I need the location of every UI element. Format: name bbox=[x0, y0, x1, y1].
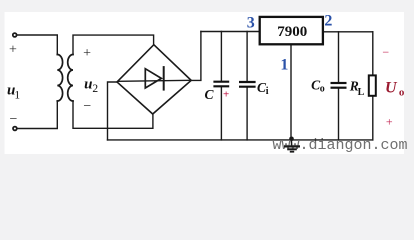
svg-text:−: − bbox=[382, 45, 389, 59]
svg-text:u: u bbox=[84, 76, 92, 92]
page background bbox=[0, 0, 414, 157]
svg-text:L: L bbox=[358, 87, 365, 98]
svg-text:+: + bbox=[386, 114, 393, 128]
wire secondary bottom to bridge bottom bbox=[73, 101, 153, 128]
svg-text:o: o bbox=[320, 84, 325, 95]
svg-text:C: C bbox=[204, 87, 214, 102]
wire pin1 down bbox=[290, 44, 292, 139]
svg-text:i: i bbox=[266, 86, 269, 97]
diode D cathode bar bbox=[163, 66, 165, 91]
wire bridge left vertex to ground rail bbox=[108, 82, 118, 140]
svg-text:2: 2 bbox=[324, 12, 332, 29]
ground symbol bbox=[284, 140, 300, 152]
wire C branch bbox=[220, 32, 222, 82]
svg-text:+: + bbox=[223, 88, 229, 100]
svg-text:U: U bbox=[385, 80, 398, 97]
wire Co branch bbox=[338, 32, 340, 83]
wire DC+ rail to 7900 pin3 bbox=[201, 31, 260, 33]
svg-text:+: + bbox=[9, 43, 17, 58]
svg-text:1: 1 bbox=[14, 89, 20, 101]
terminal bottom-left bbox=[13, 127, 17, 131]
svg-text:−: − bbox=[9, 112, 17, 127]
transformer secondary winding T1b bbox=[68, 55, 73, 102]
bridge rectifier diamond bbox=[117, 45, 191, 114]
transformer primary winding T1a bbox=[57, 55, 62, 102]
capacitor Ci plates bbox=[239, 82, 256, 87]
terminal top-left bbox=[13, 33, 17, 37]
svg-text:2: 2 bbox=[92, 83, 98, 95]
diode D wire inside bridge bbox=[118, 80, 192, 81]
wire Ci branch bbox=[246, 32, 248, 83]
svg-text:7900: 7900 bbox=[277, 24, 307, 40]
wire primary bottom bbox=[17, 101, 57, 129]
capacitor C plates bbox=[213, 82, 229, 87]
wire secondary top to bridge top bbox=[73, 35, 154, 54]
svg-text:+: + bbox=[83, 46, 91, 61]
junction dot pin1/ground bbox=[289, 137, 294, 142]
svg-text:3: 3 bbox=[247, 14, 255, 31]
wire RL branch bbox=[372, 32, 374, 76]
svg-text:o: o bbox=[399, 87, 405, 99]
wire bottom common rail bbox=[108, 139, 373, 141]
resistor RL box bbox=[369, 75, 376, 95]
wire primary top bbox=[17, 35, 57, 55]
regulator U1 7900 box bbox=[260, 17, 323, 44]
svg-text:1: 1 bbox=[280, 56, 288, 73]
wire bridge right vertex to DC+ rail bbox=[191, 32, 201, 81]
wire pin2 rail bbox=[323, 31, 373, 33]
diode D triangle bbox=[145, 69, 161, 88]
capacitor Co plates bbox=[331, 83, 347, 88]
svg-text:−: − bbox=[83, 99, 91, 114]
